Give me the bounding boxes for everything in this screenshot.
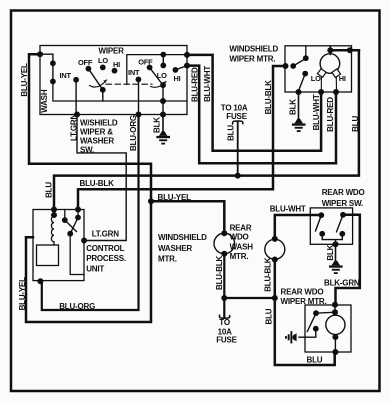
wire wash feed from node A <box>40 54 53 63</box>
control unit switch <box>64 210 66 221</box>
wire BLK-GRN <box>336 215 360 304</box>
node coil top <box>51 212 57 218</box>
svg-text:TO: TO <box>219 318 230 327</box>
svg-text:BLU-WHT: BLU-WHT <box>312 94 321 130</box>
svg-text:HI: HI <box>339 74 346 83</box>
node BLU fuse junction <box>235 173 241 179</box>
svg-text:INT: INT <box>128 68 140 77</box>
svg-text:WIPER MTR.: WIPER MTR. <box>229 55 275 64</box>
wire bank2 HI link to box edge <box>175 66 187 70</box>
chassis ground <box>285 331 297 343</box>
switch bank1 arc arrow <box>90 80 107 87</box>
node BLU-RED takeoff <box>184 63 190 69</box>
svg-text:REAR WDO: REAR WDO <box>281 288 324 297</box>
svg-text:BLU-WHT: BLU-WHT <box>203 66 212 102</box>
svg-text:BLU-BLK: BLU-BLK <box>80 179 115 188</box>
svg-text:OFF: OFF <box>78 58 93 67</box>
wire washer motor down <box>223 254 225 317</box>
wire LT.GRN <box>77 115 126 241</box>
svg-text:BLK: BLK <box>288 99 297 115</box>
svg-text:WIPER SW.: WIPER SW. <box>322 199 363 208</box>
wire motor top bus <box>330 49 359 52</box>
svg-text:BLU-ORG: BLU-ORG <box>129 115 138 151</box>
svg-text:BLU-RED: BLU-RED <box>191 67 200 102</box>
motor box bottom nodes <box>296 89 302 95</box>
node rear switch BLK <box>333 241 339 247</box>
svg-text:PROCESS.: PROCESS. <box>86 254 126 263</box>
rear motor park switch <box>313 310 319 316</box>
switch bank2 contacts <box>136 52 179 88</box>
svg-text:FUSE: FUSE <box>226 112 247 121</box>
rear wiper motor circle <box>326 315 345 334</box>
relay coil <box>51 215 54 245</box>
wire BLU-RED <box>187 66 336 164</box>
node BLK bus junction <box>160 98 166 104</box>
svg-text:WASH: WASH <box>230 243 254 252</box>
node BLU-WHT takeoff <box>184 52 190 58</box>
windshield washer motor <box>214 233 235 254</box>
svg-text:TO 10A: TO 10A <box>221 103 248 112</box>
node washer bus <box>221 295 227 301</box>
svg-text:BLK-GRN: BLK-GRN <box>324 279 360 288</box>
switch bank2 arc arrow <box>151 82 167 88</box>
fuse symbol bottom <box>219 315 229 318</box>
svg-text:LO: LO <box>157 71 167 80</box>
control process unit box <box>33 210 84 281</box>
svg-text:CONTROL: CONTROL <box>86 244 124 253</box>
svg-text:BLU-RED: BLU-RED <box>326 97 335 132</box>
svg-text:BLU-ORG: BLU-ORG <box>59 302 95 311</box>
svg-text:BLU-WHT: BLU-WHT <box>270 204 306 213</box>
svg-text:BLU-BLK: BLU-BLK <box>215 255 224 290</box>
node BLU-YEL junction <box>148 198 154 204</box>
wire washer link bus <box>224 297 274 299</box>
wire internal common bus <box>53 81 187 101</box>
svg-text:W/SHIELD: W/SHIELD <box>80 119 118 128</box>
svg-text:BLU: BLU <box>227 125 236 141</box>
node BLU-ORG on control unit <box>37 278 43 284</box>
wire BLU-YEL <box>26 54 151 322</box>
svg-text:LO: LO <box>98 56 108 65</box>
svg-text:HI: HI <box>174 74 181 83</box>
wire BLU-YEL bus to washer motor <box>151 201 224 233</box>
svg-text:WASHER: WASHER <box>80 137 114 146</box>
svg-text:BLU: BLU <box>45 182 54 198</box>
wire motor BLK <box>298 92 300 119</box>
switch bank2 lever <box>150 68 163 86</box>
svg-text:WINDSHIELD: WINDSHIELD <box>229 45 278 54</box>
svg-text:BLU: BLU <box>351 116 360 132</box>
ground (wiper motor) <box>292 119 306 132</box>
svg-text:MTR.: MTR. <box>230 252 249 261</box>
node rear wash bus <box>272 295 278 301</box>
motor park switch <box>283 63 289 69</box>
svg-text:BLK: BLK <box>326 244 335 260</box>
svg-text:WINDSHIELD: WINDSHIELD <box>158 233 207 242</box>
ground (rear switch) <box>329 261 343 274</box>
svg-text:OFF: OFF <box>138 57 153 66</box>
wire BLU-BLK <box>78 66 286 210</box>
node BLK exit <box>160 112 166 118</box>
svg-text:WDO: WDO <box>230 233 249 242</box>
wiper motor circle <box>320 54 340 74</box>
wire BLU-ORG <box>42 115 139 311</box>
svg-text:REAR WDO: REAR WDO <box>322 188 365 197</box>
svg-text:INT: INT <box>60 71 72 80</box>
svg-text:BLU-YEL: BLU-YEL <box>18 277 27 311</box>
wire bank2 lever drop <box>162 85 164 114</box>
svg-text:WASHER: WASHER <box>158 244 192 253</box>
svg-text:SW.: SW. <box>80 146 94 155</box>
switch bank1 contacts OFF LO HI INT <box>73 65 117 93</box>
wiper switch inner top line <box>127 55 187 85</box>
node BLU-ORG exit <box>136 112 142 118</box>
svg-text:UNIT: UNIT <box>86 264 104 273</box>
svg-text:WIPER MTR.: WIPER MTR. <box>281 297 327 306</box>
svg-text:BLU-BLK: BLU-BLK <box>263 257 272 292</box>
svg-text:HI: HI <box>113 60 120 69</box>
wire BLU-WHT <box>187 55 321 151</box>
motor brushes <box>317 69 340 78</box>
relay box <box>37 245 59 266</box>
wire BLK to ground <box>162 115 164 132</box>
rear wdo wiper motor box <box>305 305 351 352</box>
svg-text:REAR: REAR <box>230 224 252 233</box>
windshield wiper motor box <box>285 46 352 92</box>
svg-text:BLU: BLU <box>307 356 323 365</box>
wire bank1 lever to bus <box>102 90 104 101</box>
wire bank1 INT drop <box>75 80 77 115</box>
wire bank2 LO output stub <box>162 55 164 66</box>
dashed gang link <box>106 83 152 85</box>
wire rear motor park to chassis ground <box>299 329 316 338</box>
svg-text:BLU-YEL: BLU-YEL <box>20 63 29 97</box>
svg-text:WASH: WASH <box>40 89 49 113</box>
svg-text:BLU-BLK: BLU-BLK <box>264 80 273 115</box>
svg-text:WIPER: WIPER <box>99 47 125 56</box>
wire control unit lower contact <box>70 234 84 275</box>
svg-text:MTR.: MTR. <box>158 255 177 264</box>
wire BLU bus <box>54 50 359 209</box>
node LT.GRN exit <box>74 112 80 118</box>
svg-text:BLU: BLU <box>264 308 273 324</box>
wire bank2 INT drop <box>138 79 140 114</box>
node BLU-BLK into control unit <box>75 207 81 213</box>
wire rear wash motor top / BLU-WHT to rear switch <box>275 215 322 239</box>
svg-text:BLK: BLK <box>152 117 161 133</box>
node A on switch box left edge <box>37 51 43 57</box>
wiper switch box <box>40 46 187 115</box>
svg-text:LT.GRN: LT.GRN <box>70 113 79 141</box>
fuse symbol top <box>233 121 243 124</box>
rear switch levers <box>316 215 322 231</box>
node BLU into control unit <box>51 207 57 213</box>
svg-text:BLU-YEL: BLU-YEL <box>158 193 192 202</box>
svg-text:LT.GRN: LT.GRN <box>92 230 120 239</box>
rear switch bottom links <box>322 234 342 244</box>
rear wdo wash motor <box>265 239 285 259</box>
wash switch lever <box>52 65 54 80</box>
wash switch contacts <box>50 60 56 84</box>
ground (wiper switch BLK) <box>156 131 170 144</box>
node LT.GRN on control unit <box>81 238 87 244</box>
svg-text:LO: LO <box>311 74 321 83</box>
svg-text:WIPER &: WIPER & <box>80 128 113 137</box>
svg-text:FUSE: FUSE <box>216 335 237 344</box>
switch bank1 lever <box>88 69 102 90</box>
wire fuse stub <box>237 122 239 176</box>
wire rear switch BLK <box>335 244 337 261</box>
rear wdo wiper switch box <box>310 208 352 244</box>
wire rear motor bottom <box>334 337 336 352</box>
wire rear wash motor down <box>275 260 335 366</box>
